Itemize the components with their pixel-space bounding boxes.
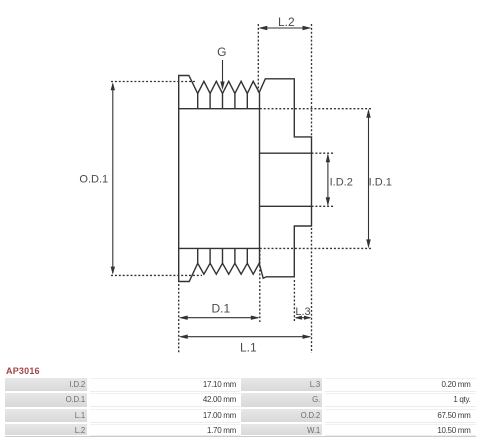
L.1 arrows xyxy=(179,335,188,339)
L.3 left extension xyxy=(293,280,295,322)
dotted extension lines xyxy=(111,24,371,353)
svg-text:O.D.1: O.D.1 xyxy=(79,174,108,186)
G leader line xyxy=(222,60,224,84)
I.D.1 arrows xyxy=(366,109,370,118)
svg-text:I.D.2: I.D.2 xyxy=(330,177,353,189)
bottom groove walls xyxy=(198,248,248,263)
svg-text:L.1: L.1 xyxy=(240,341,257,355)
svg-text:G: G xyxy=(217,45,226,59)
O.D.1 dimension line xyxy=(112,84,114,273)
dimension lines xyxy=(113,28,369,337)
pulley outer profile xyxy=(179,76,312,282)
part code xyxy=(6,366,40,376)
L.1 right extension xyxy=(311,228,313,353)
body right edge xyxy=(259,93,261,264)
arrowheads xyxy=(111,26,371,339)
L.3 dimension line xyxy=(296,317,310,319)
I.D.2 top extension xyxy=(312,152,334,154)
D.1 dimension line xyxy=(181,317,259,319)
L.2 right extension xyxy=(311,24,313,137)
D.1 arrows xyxy=(179,316,188,320)
D.1 right extension xyxy=(259,250,261,322)
spec table left column xyxy=(5,378,87,392)
L.1 dimension line xyxy=(181,336,310,338)
svg-text:I.D.1: I.D.1 xyxy=(369,177,392,189)
svg-text:D.1: D.1 xyxy=(211,302,230,316)
L.2 arrows xyxy=(258,26,267,30)
L.3 arrows xyxy=(294,316,302,320)
O.D.1 top extension xyxy=(111,81,197,83)
I.D.1 bottom extension xyxy=(260,247,371,249)
bore line bottom xyxy=(260,205,312,207)
top groove walls xyxy=(198,94,248,109)
I.D.2 dimension line xyxy=(327,155,329,205)
groove base line bottom xyxy=(179,247,260,249)
G arrow xyxy=(220,82,224,91)
I.D.2 arrows xyxy=(326,153,330,162)
D.1 / L.1 left extension xyxy=(178,284,180,353)
O.D.1 bottom extension xyxy=(111,274,202,276)
svg-text:L.3: L.3 xyxy=(295,306,310,318)
svg-text:L.2: L.2 xyxy=(278,15,295,29)
dimension labels xyxy=(79,15,391,355)
L.2 dimension line xyxy=(260,27,310,29)
I.D.1 top extension xyxy=(260,108,371,110)
I.D.1 dimension line xyxy=(368,111,370,247)
table bottom border xyxy=(5,436,476,437)
I.D.2 bottom extension xyxy=(312,205,334,207)
groove base line top xyxy=(179,108,260,110)
O.D.1 arrows xyxy=(111,82,115,90)
L.2 left extension xyxy=(257,24,259,93)
spec table right column xyxy=(241,378,322,392)
bore line top xyxy=(260,152,312,154)
